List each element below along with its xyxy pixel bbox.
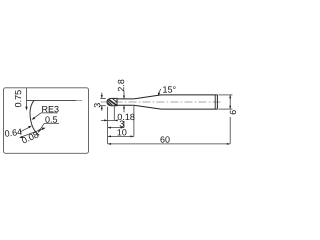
text 10 [117, 129, 126, 135]
text 0.75 [15, 90, 21, 107]
dim 6 shank dia [218, 94, 232, 96]
surface line [27, 99, 77, 101]
center line [101, 101, 223, 103]
text 0.64 [5, 129, 22, 137]
dim 10 neck length [108, 135, 134, 137]
taper [134, 95, 161, 99]
leader 15deg [159, 89, 161, 94]
text 0.5 [45, 116, 57, 122]
neck [117, 98, 134, 100]
dimension 0.75 line [26, 88, 28, 107]
dim 2.8 neck dia [123, 91, 125, 99]
text 3 len [120, 121, 124, 127]
dim 0.18 [101, 119, 117, 121]
detail view box [4, 88, 89, 154]
dim 3 head dia [100, 97, 106, 99]
text 3 dia [94, 103, 100, 107]
dimension 0.08 line [21, 128, 45, 137]
corner profile arc [30, 101, 39, 136]
dim 60 overall [108, 143, 231, 145]
text 0.08 [22, 132, 39, 143]
leader 0.5 [39, 123, 44, 131]
text 2.8 [118, 80, 124, 92]
cutter head [107, 98, 117, 105]
leader 0.64 [21, 127, 31, 132]
text 60 [160, 136, 169, 142]
shank [161, 94, 217, 96]
shelf RE3 [41, 112, 58, 114]
text 0.18 [118, 114, 135, 120]
dim 3 flute length [108, 127, 124, 129]
text RE3 [42, 106, 58, 112]
leader RE3 [34, 113, 42, 118]
extension lines bottom [107, 107, 109, 144]
arrow 0.75 [25, 107, 27, 111]
shelf 0.5 [44, 122, 59, 124]
text 15deg [163, 86, 175, 92]
text 6 dia [230, 110, 236, 114]
